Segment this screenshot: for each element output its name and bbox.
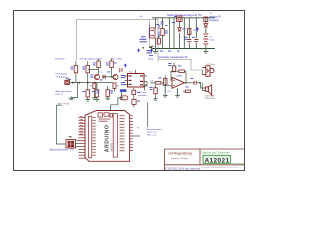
resistor R18 xyxy=(185,90,190,93)
supply arrow IC xyxy=(124,64,126,68)
resistor R1 xyxy=(74,66,78,73)
IC1 box xyxy=(128,74,145,88)
svg-text:invertiert: invertiert xyxy=(138,94,147,97)
resistor R19 xyxy=(132,90,136,94)
resistor R3 xyxy=(86,90,90,97)
wire R1 R2 up to 5V xyxy=(76,61,88,66)
wire cap to Q2 xyxy=(105,76,113,78)
capacitor C4 xyxy=(194,40,198,42)
frame border xyxy=(14,11,245,171)
op-amp U1 xyxy=(172,77,185,88)
svg-text:Filter 2. Stufe: Filter 2. Stufe xyxy=(111,57,124,60)
capacitor C1 electrolytic xyxy=(203,34,208,44)
capacitor C5 xyxy=(103,75,105,79)
IC1 pins left xyxy=(125,76,128,85)
svg-text:0.5W KLEIN: 0.5W KLEIN xyxy=(205,98,216,100)
ground R3 xyxy=(85,100,90,102)
svg-text:4.7k: 4.7k xyxy=(168,91,171,93)
wire R18 xyxy=(183,90,185,92)
connector X2 antenna jack xyxy=(65,80,70,84)
wire IC1 top supply xyxy=(135,70,137,74)
diode D2 xyxy=(204,24,208,28)
resistor R7 xyxy=(93,83,96,89)
svg-text:TP Ausgang: TP Ausgang xyxy=(56,75,69,78)
resistor R11 xyxy=(157,38,160,44)
svg-text:1k: 1k xyxy=(117,86,119,88)
ground antenna xyxy=(69,97,75,100)
wire opamp gray feed xyxy=(157,59,159,62)
value labels middle section xyxy=(90,63,125,94)
arduino top pin texts xyxy=(99,119,111,122)
wire stubs down R3 R4 xyxy=(88,83,97,100)
resistor R15 xyxy=(164,79,168,86)
connector X3 antenna header xyxy=(66,140,76,149)
value labels below power rail xyxy=(149,51,180,57)
wire power top rail xyxy=(152,17,215,19)
wire reset chain xyxy=(133,88,135,107)
fuse F1 xyxy=(177,16,182,22)
wire R11 stub xyxy=(158,35,160,38)
wire stub up R1 xyxy=(75,73,77,83)
wire antenna signal xyxy=(69,82,113,84)
svg-text:Digital dcf Scanner: Digital dcf Scanner xyxy=(202,151,230,155)
resistor R14 feedback xyxy=(179,70,185,73)
svg-text:230V~ Netz: 230V~ Netz xyxy=(158,24,161,37)
svg-text:17.05.2021 19:42 /dcf_scan.sch: 17.05.2021 19:42 /dcf_scan.sch xyxy=(165,168,201,171)
resistor R2 xyxy=(86,66,90,73)
svg-text:Copyright HS Regensburg 2021 R: Copyright HS Regensburg 2021 Rev 1 xyxy=(201,166,239,169)
arduino top blocks xyxy=(98,113,102,117)
arduino right pin names xyxy=(120,115,125,151)
ground Q1 xyxy=(92,98,97,100)
ground R15 xyxy=(163,85,168,97)
svg-text:Ausgang: Ausgang xyxy=(209,19,219,22)
arduino right pins xyxy=(130,116,133,151)
component regulator xyxy=(204,17,208,22)
wire net to arduino right xyxy=(147,103,149,128)
svg-text:5V Pegel Signal invertiert: 5V Pegel Signal invertiert xyxy=(80,57,103,60)
resistor R4 xyxy=(95,90,99,97)
label X3 xyxy=(69,136,72,137)
wire R13 top xyxy=(173,63,175,67)
value labels trafo xyxy=(161,22,168,26)
supply +5V arrow xyxy=(196,28,199,32)
capacitor C6 xyxy=(120,68,122,72)
label X2 xyxy=(66,78,69,79)
ground Q2 xyxy=(119,92,124,100)
junction dots mid wires xyxy=(103,47,201,86)
svg-text:ARDUINO: ARDUINO xyxy=(104,125,110,153)
transistor Q2 xyxy=(113,74,118,79)
arduino mid header strip xyxy=(113,114,117,158)
arduino left header strip xyxy=(88,116,91,158)
label net 2rows xyxy=(147,50,153,53)
wire gray to jack xyxy=(191,69,202,71)
resistor R8 xyxy=(113,83,116,89)
ground R17 xyxy=(153,99,158,101)
svg-text:LM386: LM386 xyxy=(176,76,183,78)
wire collector row xyxy=(88,69,99,71)
diode D1 xyxy=(178,28,181,32)
IC1 inner pin marks xyxy=(129,75,144,85)
wire stub up R2 xyxy=(87,73,89,83)
wire output xyxy=(185,82,194,84)
wire R5 R6 verticals xyxy=(99,59,112,76)
svg-text:DCF-Signal: DCF-Signal xyxy=(56,74,68,76)
svg-text:Bastellantenne 77k: Bastellantenne 77k xyxy=(50,148,75,151)
svg-text:+5V: +5V xyxy=(139,16,143,18)
svg-text:Uni Regensburg: Uni Regensburg xyxy=(169,152,192,156)
resistor R13 xyxy=(172,66,176,72)
speaker LS1 xyxy=(205,85,211,95)
wire power bottom rail xyxy=(152,48,215,50)
svg-text:1k: 1k xyxy=(90,86,92,88)
ground power right xyxy=(203,49,208,54)
IC1 pins right xyxy=(144,76,147,85)
arduino left pin names xyxy=(93,117,96,156)
svg-text:DCF 77: DCF 77 xyxy=(56,94,64,96)
ground R4 xyxy=(95,100,100,102)
supply arrow mid1 xyxy=(137,49,139,53)
value labels power section xyxy=(156,16,195,40)
svg-text:A12021: A12021 xyxy=(205,157,230,164)
wire power verticals xyxy=(155,18,205,49)
connector X1 xyxy=(150,28,156,38)
junction net cross xyxy=(149,46,151,48)
resistor R16 input xyxy=(155,82,161,85)
svg-text:Rechtecksignal: Rechtecksignal xyxy=(147,128,162,131)
junction dots antenna wire xyxy=(72,82,96,84)
wire input net xyxy=(151,76,173,86)
ground R12 xyxy=(105,98,110,100)
title block outline xyxy=(165,149,245,171)
wire arduino tx xyxy=(133,135,140,137)
resistor R6 xyxy=(110,61,114,68)
wire IC right down xyxy=(145,82,148,91)
wire R17 xyxy=(155,85,157,99)
ground power left xyxy=(153,49,158,54)
arduino left pin labels xyxy=(80,116,83,134)
component reset box xyxy=(132,99,136,104)
svg-text:Pull-Up 5V: Pull-Up 5V xyxy=(55,58,65,60)
svg-text:100u: 100u xyxy=(209,40,215,42)
wire X3 to arduino xyxy=(76,141,79,147)
svg-text:Verstärker Lautsprecher 5V: Verstärker Lautsprecher 5V xyxy=(159,56,189,59)
wire feedback xyxy=(184,71,186,83)
component trafo box xyxy=(188,29,191,35)
wire Q stubs xyxy=(94,86,114,98)
wire gray branch to R dividers xyxy=(149,20,151,47)
label logik 5V stack xyxy=(140,36,148,42)
wire X3 loop xyxy=(57,105,67,144)
wire oval to arduino xyxy=(111,98,121,111)
value labels opamp section xyxy=(150,63,194,90)
svg-text:Signal: Signal xyxy=(148,58,154,60)
component crystal oval xyxy=(121,96,128,100)
svg-text:DCF Pull-Up: DCF Pull-Up xyxy=(149,23,151,36)
arduino left pins xyxy=(79,118,86,159)
wire green underline extension xyxy=(231,162,245,164)
svg-text:UNO R3: UNO R3 xyxy=(112,142,114,151)
transistor Q1 xyxy=(94,74,99,79)
value labels left section xyxy=(68,67,94,92)
capacitor C3 xyxy=(187,40,191,42)
wire jack ground drop xyxy=(71,83,77,98)
arduino U2 outline xyxy=(85,111,130,162)
svg-text:Tmax = 1s: Tmax = 1s xyxy=(147,132,158,134)
resistor R5 xyxy=(97,61,101,68)
wire jack down xyxy=(201,70,203,75)
svg-text:10k: 10k xyxy=(150,81,153,83)
wire to speaker xyxy=(196,83,205,88)
connector X4 jack xyxy=(202,66,210,77)
node A12021 box xyxy=(203,155,231,163)
resistor R12 xyxy=(106,90,110,97)
resistor R17 xyxy=(154,88,158,94)
svg-text:T2: T2 xyxy=(118,72,120,74)
svg-text:Spannungsversorgung 5V: Spannungsversorgung 5V xyxy=(167,13,202,17)
svg-text:Antennen-Signal: Antennen-Signal xyxy=(56,90,73,93)
svg-text:X2 3.5mm: X2 3.5mm xyxy=(207,64,216,66)
label GND 5V highlight xyxy=(120,89,127,92)
resistor R9 xyxy=(161,29,165,36)
svg-text:Hannes + Regen: Hannes + Regen xyxy=(172,158,189,160)
svg-text:Tmin = 1s: Tmin = 1s xyxy=(147,134,158,136)
svg-text:T1: T1 xyxy=(100,72,102,74)
supply arrow mid2 xyxy=(150,49,152,53)
ground opamp minus xyxy=(175,88,180,97)
value labels reset xyxy=(137,92,140,102)
net 5V gray supply wire xyxy=(77,20,192,71)
capacitor C7 xyxy=(194,81,196,85)
